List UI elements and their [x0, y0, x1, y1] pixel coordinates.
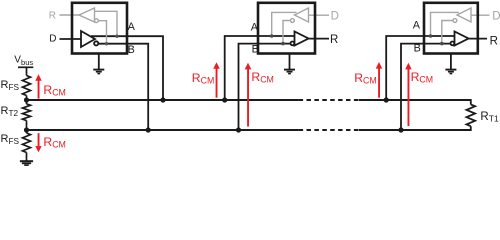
wire Vbus to RFS1 — [26, 67, 28, 75]
driver gray A out — [272, 12, 297, 35]
wire A bus corner down — [470, 99, 472, 105]
node dot rail-B — [24, 127, 29, 132]
gray junction dot on B line — [105, 42, 108, 45]
svg-text:D: D — [49, 33, 56, 44]
wire RFS2 to ground — [26, 153, 28, 161]
receiver input top wire gray — [95, 11, 118, 35]
bus A line solid left — [27, 100, 471, 130]
ground below U1 — [93, 54, 104, 74]
resistor RFS bottom zigzag — [23, 133, 31, 153]
wire A out of left box — [91, 36, 163, 100]
bus B solid right — [359, 129, 471, 131]
bus B line solid left — [27, 129, 299, 131]
wire A into middle box — [225, 36, 295, 100]
node dot B right — [398, 127, 403, 132]
svg-text:A: A — [128, 21, 136, 33]
red arrow RCM up (left) — [35, 74, 41, 98]
R output wire gray — [60, 14, 80, 16]
driver U2D (gray inactive) — [272, 8, 329, 43]
D wire gray — [309, 14, 330, 16]
wire node B to RFS2 — [26, 130, 28, 133]
node dot rail-A — [24, 97, 29, 102]
receiver U3R (black active) — [451, 32, 488, 46]
red arrow RCM up right-right — [405, 63, 412, 126]
D input wire — [60, 38, 82, 40]
svg-text:R: R — [490, 35, 498, 47]
R output wire — [309, 38, 330, 40]
Vbus terminal bar — [18, 66, 33, 68]
resistor RT1 zigzag — [466, 105, 475, 127]
receiver U2R (black active) — [291, 32, 330, 46]
driver gray bubble — [291, 19, 295, 23]
resistor RT2 zigzag — [23, 104, 31, 121]
driver gray bubble wire — [283, 21, 291, 43]
red arrow RCM up right-left — [376, 62, 383, 98]
wire RFS1 to node — [26, 96, 28, 101]
R output wire right — [469, 38, 488, 40]
wire RT1 to B bus — [470, 126, 472, 131]
svg-text:B: B — [128, 44, 135, 56]
receiver U1R (gray inactive) — [60, 8, 118, 43]
red arrow RCM up mid-right — [245, 63, 252, 127]
svg-text:B: B — [252, 43, 259, 55]
bus A solid right — [359, 99, 471, 101]
resistor RFS top zigzag — [23, 76, 31, 96]
svg-text:A: A — [251, 22, 259, 34]
svg-text:D: D — [492, 10, 500, 22]
bus B dashed — [299, 129, 359, 131]
driver gray bubble right — [453, 19, 457, 23]
bus A dashed — [299, 99, 359, 101]
wire RT2 to node B — [26, 121, 28, 131]
termination RT1 — [466, 99, 475, 131]
svg-text:D: D — [331, 10, 339, 22]
receiver input bubble right — [451, 42, 455, 46]
driver gray A out right — [431, 12, 460, 35]
wire B out of left box — [99, 44, 148, 130]
wire B into right box — [401, 44, 451, 130]
dark junction dot on B line mid — [281, 42, 285, 46]
Vbus supply rail — [18, 67, 33, 161]
wire node to RT2 — [26, 100, 28, 104]
receiver bubble wire gray — [98, 21, 106, 43]
D wire gray right — [471, 14, 490, 16]
box U2 — [258, 3, 315, 54]
svg-text:R: R — [330, 34, 338, 46]
box U3 — [424, 3, 478, 54]
ground below U2 — [284, 54, 295, 74]
ground below U3 — [445, 54, 456, 74]
dark junction dot on A line mid — [270, 34, 274, 38]
node dot A right — [384, 97, 389, 102]
node dot A mid — [222, 97, 227, 102]
svg-text:B: B — [414, 43, 421, 55]
box U1 — [72, 3, 127, 54]
node dot B left — [146, 127, 151, 132]
receiver bubble gray — [95, 19, 99, 23]
gray junction dot on A line — [115, 35, 118, 38]
svg-text:A: A — [413, 20, 421, 32]
driver gray bubble wire right — [442, 21, 453, 43]
node dot A left — [160, 97, 165, 102]
wire A into right box — [386, 36, 454, 100]
svg-text:RT1: RT1 — [480, 111, 499, 124]
red arrow RCM down (left) — [35, 133, 41, 152]
driver U3D (gray inactive) — [431, 8, 490, 43]
wire B into middle box — [239, 44, 291, 130]
driver U1D (black active) — [60, 31, 99, 47]
svg-text:R: R — [49, 11, 56, 22]
node dot B mid — [236, 127, 241, 132]
red arrow RCM up mid-left — [213, 62, 220, 98]
driver output bubble — [94, 41, 98, 45]
dark junction dot on B line right — [440, 42, 444, 46]
dark junction dot on A line right — [429, 34, 433, 38]
receiver input bubble — [291, 42, 295, 46]
ground bottom-left — [20, 161, 33, 165]
